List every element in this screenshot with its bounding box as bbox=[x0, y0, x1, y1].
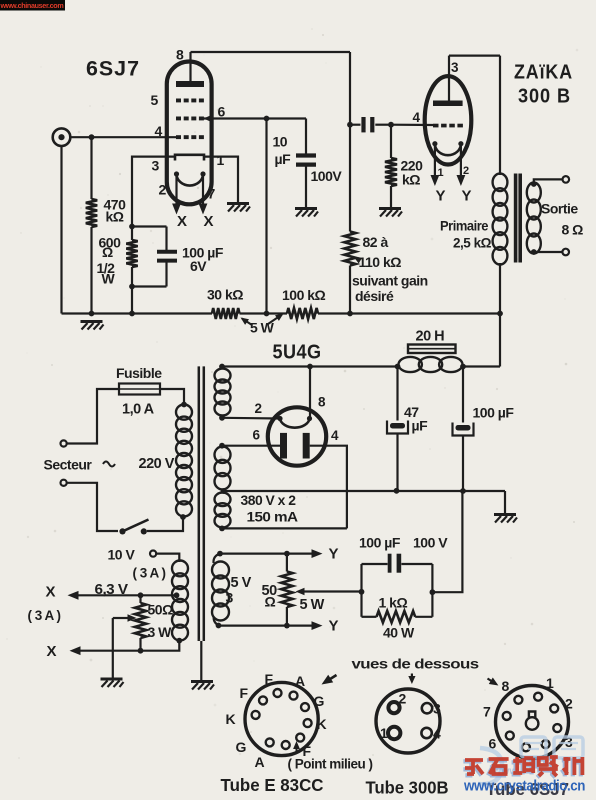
300B plate lead pin 3 bbox=[448, 56, 450, 101]
svg-text:X: X bbox=[47, 643, 57, 660]
wire 6SJ7 screen pin6 bbox=[204, 115, 213, 123]
arrow to 300B socket bbox=[411, 674, 413, 680]
watermark banner www.chinauser.com bbox=[0, 0, 65, 11]
5U4G plate right pin4 bbox=[303, 433, 310, 459]
wire rail left segment bbox=[62, 312, 213, 314]
arrow to E83CC socket bbox=[327, 675, 337, 681]
svg-text:( Point milieu ): ( Point milieu ) bbox=[288, 757, 373, 772]
wire bias box right bbox=[431, 564, 433, 617]
E83CC pin 1 bbox=[259, 696, 267, 704]
svg-text:A: A bbox=[295, 673, 305, 689]
wire mains top bbox=[67, 389, 119, 444]
ground at pin1 bbox=[227, 204, 250, 212]
6SJ7 socket pin 7 bbox=[506, 732, 514, 740]
fuse F1 bbox=[119, 384, 160, 395]
6SJ7 socket pin 6 bbox=[522, 743, 530, 751]
wire switch to primary bottom bbox=[147, 517, 183, 531]
svg-text:10 V: 10 V bbox=[108, 547, 136, 563]
6SJ7 grid row pin 5 bbox=[176, 99, 181, 103]
svg-text:suivant gain: suivant gain bbox=[352, 273, 428, 289]
svg-text:Primaire: Primaire bbox=[440, 218, 489, 234]
arrow point milieu bbox=[296, 744, 298, 752]
node bias network right bbox=[430, 589, 436, 595]
resistor R6 100k bbox=[287, 308, 318, 319]
socket view tube 6SJ7 bbox=[496, 686, 569, 759]
node 6.3V tap bbox=[174, 592, 180, 598]
svg-text:7: 7 bbox=[208, 186, 216, 202]
node screen junction bbox=[264, 116, 270, 122]
svg-text:4: 4 bbox=[433, 726, 441, 742]
svg-text:6SJ7: 6SJ7 bbox=[86, 57, 140, 81]
E83CC pin 4 bbox=[301, 703, 309, 711]
node pot5W bottom bbox=[284, 623, 290, 629]
node 6.3V winding bottom bbox=[176, 638, 182, 644]
E83CC pin 8 bbox=[266, 738, 274, 746]
svg-text:kΩ: kΩ bbox=[106, 209, 124, 225]
node rail B+ junction bbox=[497, 311, 503, 317]
wire 300B filament bottom Y bbox=[219, 624, 315, 626]
E83CC pin 7 bbox=[282, 741, 290, 749]
svg-text:2: 2 bbox=[255, 401, 262, 416]
capacitor C7 100uF 100V bbox=[362, 563, 388, 565]
svg-text:G: G bbox=[236, 739, 247, 755]
socket view tube E83CC bbox=[245, 682, 318, 755]
svg-text:Fusible: Fusible bbox=[116, 365, 162, 381]
tube V1 6SJ7 envelope bbox=[167, 62, 212, 205]
svg-text:W: W bbox=[102, 271, 116, 287]
wire B+ node line bbox=[463, 365, 500, 367]
wire 10V terminal to winding bbox=[156, 554, 179, 562]
node pot5W top bbox=[284, 551, 290, 557]
svg-text:1: 1 bbox=[217, 152, 225, 168]
resistor R4 82-110k plate load bbox=[344, 232, 355, 266]
wire 6SJ7 plate pin8 to top rail bbox=[189, 52, 191, 81]
svg-text:1: 1 bbox=[438, 167, 444, 179]
wire jack to 6SJ7 grid pin4 bbox=[70, 136, 176, 138]
wire return to ground bbox=[504, 491, 506, 514]
svg-text:( 3 A ): ( 3 A ) bbox=[133, 566, 166, 581]
svg-text:A: A bbox=[255, 754, 265, 770]
svg-text:Y: Y bbox=[329, 618, 339, 635]
svg-text:3: 3 bbox=[152, 158, 160, 174]
svg-text:7: 7 bbox=[483, 704, 491, 720]
svg-text:30 kΩ: 30 kΩ bbox=[207, 287, 243, 303]
svg-text:8: 8 bbox=[176, 47, 184, 63]
svg-text:1 kΩ: 1 kΩ bbox=[379, 595, 408, 611]
transformer T2 primary winding bbox=[493, 174, 508, 192]
svg-text:3: 3 bbox=[433, 701, 441, 717]
wire plate node vertical bbox=[349, 52, 351, 232]
svg-text:6,3 V: 6,3 V bbox=[95, 582, 129, 598]
node rail ground junction bbox=[89, 311, 95, 317]
node 300B grid junction bbox=[388, 122, 394, 128]
resistor R1 470 kOhm bbox=[90, 137, 92, 199]
watermark red chinese characters bbox=[463, 757, 582, 777]
wire mains bottom to switch bbox=[67, 483, 118, 531]
wire fuse to primary bbox=[160, 389, 184, 405]
5U4G plate left pin6 bbox=[280, 433, 287, 459]
potentiometer R9 50 Ohm 5W bbox=[286, 554, 288, 572]
svg-text:100 µF: 100 µF bbox=[473, 405, 515, 421]
svg-text:µF: µF bbox=[412, 418, 429, 434]
svg-text:ZAïKA: ZAïKA bbox=[514, 62, 573, 84]
svg-text:20 H: 20 H bbox=[416, 329, 445, 345]
wire 300B filament top Y bbox=[220, 552, 314, 554]
svg-text:4: 4 bbox=[331, 428, 339, 443]
6SJ7 grid row pin 4 control grid bbox=[176, 135, 181, 139]
5U4G filament bbox=[277, 416, 282, 421]
svg-text:Y: Y bbox=[329, 546, 339, 563]
transformer T1 HV winding top bbox=[219, 443, 225, 449]
svg-text:5 V: 5 V bbox=[231, 575, 252, 591]
svg-text:2: 2 bbox=[565, 696, 573, 712]
node pot top bbox=[138, 592, 144, 598]
svg-text:82 à: 82 à bbox=[363, 234, 389, 250]
socket view tube 300B bbox=[376, 689, 440, 753]
svg-text:8: 8 bbox=[502, 678, 510, 694]
inductor L1 choke winding bbox=[399, 357, 422, 372]
E83CC pin 3 bbox=[290, 692, 298, 700]
svg-text:8 Ω: 8 Ω bbox=[562, 222, 584, 238]
ground of core bbox=[191, 682, 214, 690]
300B filament lead Y right bbox=[460, 144, 462, 177]
svg-text:1: 1 bbox=[380, 725, 388, 741]
svg-text:Y: Y bbox=[436, 188, 446, 205]
wire 6.3V line to X bbox=[77, 594, 177, 596]
svg-text:Tube 300B: Tube 300B bbox=[366, 778, 449, 798]
6SJ7 grid row pin 6 screen bbox=[176, 117, 181, 121]
wire rectifier output line bbox=[222, 365, 399, 367]
svg-text:www.crystalradio.cn: www.crystalradio.cn bbox=[463, 778, 585, 795]
node bias network left bbox=[359, 589, 365, 595]
wire top rail plate node bbox=[191, 51, 351, 53]
capacitor C4 coupling bbox=[350, 124, 361, 126]
tube V2 300B envelope bbox=[425, 76, 472, 164]
300B plate (pin 3) bbox=[433, 101, 463, 107]
resistor R5 30k bbox=[212, 308, 240, 319]
svg-text:www.chinauser.com: www.chinauser.com bbox=[0, 1, 63, 10]
capacitor C6 100uF bbox=[462, 367, 464, 423]
wire cathode junction to rail bbox=[131, 287, 133, 314]
300B socket pin 2 bbox=[388, 702, 399, 713]
E83CC pin 5 bbox=[304, 719, 312, 727]
watermark light blue shapes bbox=[478, 737, 583, 784]
6SJ7 socket pin 5 bbox=[542, 740, 550, 748]
E83CC pin 9 bbox=[252, 711, 260, 719]
node cathode bottom junction bbox=[129, 284, 135, 290]
svg-text:µF: µF bbox=[275, 151, 292, 167]
capacitor C5 47uF bbox=[396, 367, 398, 421]
node choke right bbox=[460, 364, 466, 370]
300B filament bbox=[432, 141, 437, 146]
node plate load to B+ rail bbox=[347, 311, 353, 317]
node secondary bottom bbox=[531, 249, 537, 255]
ground of hum pot bbox=[101, 679, 124, 687]
wire bias network to center tap line bbox=[432, 491, 462, 592]
transformer T2 secondary winding bbox=[527, 183, 541, 203]
wire grid junction to 300B grid bbox=[391, 124, 433, 127]
6SJ7 socket pin 8 bbox=[503, 712, 511, 720]
pot R8 wiper bbox=[128, 614, 137, 622]
svg-text:Tube E 83CC: Tube E 83CC bbox=[221, 775, 324, 795]
svg-text:F: F bbox=[265, 671, 274, 687]
node 47uF return bbox=[394, 488, 400, 494]
wire winding bottom to X bbox=[79, 641, 180, 651]
wire 6SJ7 cathode pin3 to bias network bbox=[132, 157, 175, 227]
svg-text:1: 1 bbox=[546, 675, 554, 691]
svg-text:100 V: 100 V bbox=[413, 535, 448, 551]
potentiometer R8 50 Ohm 3W bbox=[139, 595, 141, 603]
transformer T1 HV winding bottom bbox=[215, 493, 231, 507]
300B socket pin 3 bbox=[422, 703, 432, 713]
wire screen divider drop bbox=[265, 119, 267, 314]
6SJ7 heater lead X right bbox=[202, 174, 204, 206]
svg-text:300 B: 300 B bbox=[518, 86, 571, 108]
wire 5U4G pin4 to HV bottom bbox=[310, 446, 347, 529]
svg-text:100 µF: 100 µF bbox=[359, 535, 401, 551]
resistor R7 1k 40W bbox=[362, 616, 377, 618]
svg-text:3: 3 bbox=[451, 60, 459, 75]
transformer T1 core bbox=[198, 366, 201, 641]
transformer T2 core bbox=[514, 174, 518, 263]
svg-text:X: X bbox=[46, 584, 56, 601]
wire 300B plate to output transformer bbox=[449, 54, 500, 56]
svg-text:4: 4 bbox=[155, 123, 163, 139]
svg-text:110 kΩ: 110 kΩ bbox=[359, 254, 402, 270]
svg-text:50Ω: 50Ω bbox=[148, 602, 174, 618]
terminal 10V tap bbox=[150, 551, 156, 557]
svg-text:6: 6 bbox=[253, 428, 261, 443]
transformer T1 5V 300B winding bbox=[217, 551, 223, 557]
6SJ7 socket pin 3 bbox=[550, 704, 558, 712]
300B grid dashes bbox=[433, 124, 439, 128]
transformer T1 5V rectifier winding bbox=[219, 364, 225, 370]
terminal mains bottom bbox=[61, 480, 67, 486]
wire bias box left bbox=[360, 564, 362, 617]
node HV center tap bbox=[221, 488, 227, 494]
wire 6SJ7 pin1 to ground bbox=[204, 157, 238, 203]
svg-text:kΩ: kΩ bbox=[402, 172, 420, 188]
terminal output bottom bbox=[562, 249, 569, 256]
capacitor C3 10uF screen bypass bbox=[305, 119, 307, 154]
svg-text:8: 8 bbox=[318, 395, 326, 410]
svg-text:G: G bbox=[314, 693, 325, 709]
node choke left bbox=[395, 364, 401, 370]
transformer T1 6.3V winding bbox=[172, 561, 188, 577]
svg-text:150 mA: 150 mA bbox=[247, 509, 298, 525]
terminal mains top bbox=[61, 440, 67, 446]
wire secondary top to terminal bbox=[534, 179, 563, 184]
svg-text:4: 4 bbox=[413, 110, 421, 125]
svg-text:vues de dessous: vues de dessous bbox=[352, 656, 480, 672]
6SJ7 heater bbox=[174, 171, 179, 176]
pot R9 wiper to bias network bbox=[296, 588, 305, 596]
arrow to 110k resistor bbox=[355, 258, 360, 261]
inductor L1 choke 20H core bbox=[408, 345, 456, 354]
svg-text:K: K bbox=[226, 711, 236, 727]
6SJ7 socket key bbox=[529, 712, 535, 718]
svg-text:100 kΩ: 100 kΩ bbox=[282, 287, 326, 303]
node cathode top junction bbox=[129, 224, 135, 230]
ground of screen bypass bbox=[295, 209, 318, 217]
wire 5U4G pin2 to winding bottom bbox=[222, 417, 280, 420]
svg-text:5 W: 5 W bbox=[300, 597, 325, 613]
ground of 220k bbox=[379, 209, 402, 217]
input jack J1 bbox=[53, 128, 71, 146]
svg-text:Ω: Ω bbox=[265, 594, 276, 610]
svg-text:( 3 A ): ( 3 A ) bbox=[28, 608, 61, 623]
ground main signal ground bbox=[81, 322, 104, 330]
node plate / coupling junction bbox=[347, 122, 353, 128]
ground of center tap bbox=[494, 515, 517, 523]
300B filament lead Y left bbox=[434, 144, 436, 177]
svg-text:40 W: 40 W bbox=[383, 625, 415, 641]
svg-text:2: 2 bbox=[463, 165, 469, 177]
svg-text:3 W: 3 W bbox=[148, 624, 173, 640]
resistor R3 220k grid leak bbox=[390, 125, 392, 158]
resistor R2 600 Ohm 1/2W bbox=[131, 227, 133, 241]
wire jack ground drop bbox=[60, 146, 62, 314]
svg-text:Y: Y bbox=[462, 188, 472, 205]
node junction jack/470k bbox=[89, 134, 95, 140]
svg-text:Ω: Ω bbox=[102, 244, 113, 260]
E83CC pin 6 bbox=[296, 734, 304, 742]
svg-text:X: X bbox=[177, 213, 187, 230]
wire 5U4G pin8 to winding top bbox=[307, 364, 313, 370]
svg-text:5: 5 bbox=[151, 92, 159, 108]
svg-text:6: 6 bbox=[218, 104, 226, 120]
svg-text:3: 3 bbox=[226, 590, 234, 606]
arrow to 6SJ7 socket bbox=[488, 679, 497, 685]
wire 5U4G pin6 to HV top bbox=[222, 445, 280, 447]
wire secondary bottom to terminal bbox=[534, 251, 563, 253]
node secondary top bbox=[531, 181, 537, 187]
svg-text:Sortie: Sortie bbox=[541, 201, 578, 217]
svg-text:5U4G: 5U4G bbox=[273, 341, 322, 364]
wire HV center tap return line bbox=[224, 490, 506, 492]
svg-text:désiré: désiré bbox=[355, 288, 394, 304]
svg-text:2: 2 bbox=[399, 691, 407, 707]
300B socket pin 1 bbox=[388, 727, 400, 739]
300B socket pin 4 bbox=[421, 728, 431, 738]
switch S1 bbox=[119, 528, 125, 534]
svg-text:6V: 6V bbox=[190, 258, 207, 274]
svg-text:2: 2 bbox=[159, 182, 167, 198]
terminal output top bbox=[563, 176, 570, 183]
svg-text:F: F bbox=[240, 685, 249, 701]
wire rail mid segment bbox=[240, 312, 288, 314]
6SJ7 cathode pin 3 bbox=[175, 155, 204, 161]
6SJ7 heater lead X left bbox=[175, 174, 177, 206]
6SJ7 plate (pin 8) bbox=[176, 81, 204, 87]
svg-text:380 V x 2: 380 V x 2 bbox=[241, 492, 297, 508]
svg-text:Secteur: Secteur bbox=[44, 457, 93, 473]
tube V3 5U4G envelope bbox=[268, 407, 326, 465]
node 100uF return bbox=[460, 488, 466, 494]
svg-text:220 V: 220 V bbox=[139, 456, 175, 472]
6SJ7 socket pin 1 bbox=[514, 696, 522, 704]
node pot bottom bbox=[138, 648, 144, 654]
transformer T1 primary 220V winding bbox=[181, 402, 187, 408]
E83CC pin 2 bbox=[274, 689, 282, 697]
svg-text:K: K bbox=[317, 716, 327, 732]
6SJ7 socket pin 2 bbox=[534, 693, 542, 701]
wire rail right segment to B+ bbox=[318, 312, 500, 314]
6SJ7 socket pin 4 bbox=[553, 724, 561, 732]
wire primary bottom to B+ bbox=[499, 263, 501, 367]
svg-text:1,0 A: 1,0 A bbox=[122, 402, 155, 418]
svg-text:100V: 100V bbox=[311, 168, 343, 184]
svg-text:2,5 kΩ: 2,5 kΩ bbox=[453, 235, 491, 251]
wire core to ground bbox=[200, 641, 202, 681]
svg-text:10: 10 bbox=[273, 134, 288, 150]
capacitor C2 100uF 6V bbox=[132, 225, 167, 227]
